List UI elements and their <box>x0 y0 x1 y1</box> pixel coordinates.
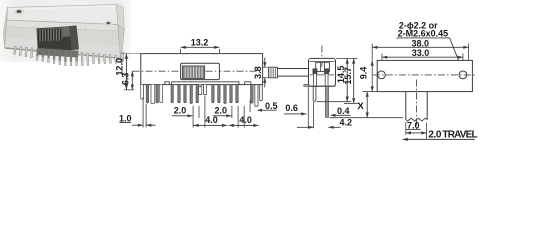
svg-text:4.0: 4.0 <box>205 115 218 125</box>
svg-text:0.5: 0.5 <box>265 101 278 111</box>
svg-text:9.4: 9.4 <box>358 67 368 80</box>
svg-text:3.8: 3.8 <box>253 66 263 79</box>
svg-text:15.7: 15.7 <box>343 67 353 85</box>
svg-text:4.0: 4.0 <box>239 115 252 125</box>
svg-text:2.0: 2.0 <box>215 106 228 116</box>
svg-text:1.0: 1.0 <box>119 113 132 123</box>
svg-text:33.0: 33.0 <box>412 48 430 58</box>
svg-text:0.6: 0.6 <box>285 103 298 113</box>
svg-text:0.4: 0.4 <box>337 106 350 116</box>
svg-text:2-M2.6x0.45: 2-M2.6x0.45 <box>398 28 449 38</box>
svg-text:6.3: 6.3 <box>121 73 131 86</box>
svg-text:7.0: 7.0 <box>407 120 420 130</box>
svg-text:4.2: 4.2 <box>340 117 353 127</box>
svg-text:2.0: 2.0 <box>174 106 187 116</box>
svg-text:X: X <box>357 101 364 112</box>
svg-text:13.2: 13.2 <box>191 37 209 47</box>
